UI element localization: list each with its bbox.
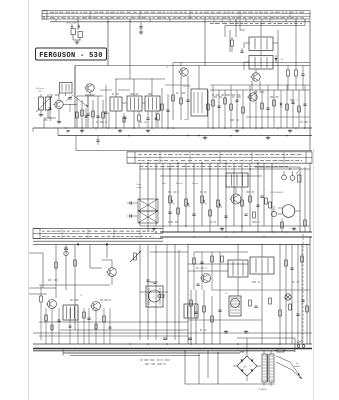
capacitor C8 <box>104 112 107 113</box>
node D <box>77 243 108 245</box>
capacitor C22 <box>85 116 88 117</box>
wire <box>90 267 102 269</box>
capacitor C12 <box>240 48 243 52</box>
wire <box>297 244 299 344</box>
resistor R70 <box>193 258 196 264</box>
capacitor C64 <box>146 280 149 281</box>
wire <box>267 85 269 128</box>
capacitor C59 <box>244 214 247 215</box>
wire <box>207 90 209 128</box>
capacitor C20 <box>96 136 99 146</box>
node F <box>65 127 297 136</box>
socket SK1 tape/gram <box>66 22 82 45</box>
capacitor C66 <box>163 338 167 339</box>
resistor R21 <box>207 104 210 110</box>
wire <box>33 240 163 242</box>
IF transformer L5 <box>145 96 160 111</box>
ground <box>39 113 43 117</box>
wire <box>255 69 257 73</box>
page right edge <box>313 148 315 400</box>
IF transformer L4 <box>127 96 142 111</box>
transformer T4 <box>184 304 198 318</box>
wire <box>133 79 135 96</box>
wire <box>295 20 297 66</box>
resistor R60 <box>55 262 58 268</box>
wire <box>188 243 310 245</box>
output transistor V5 <box>146 286 163 307</box>
ground <box>152 227 156 231</box>
wire <box>147 244 149 340</box>
wire <box>74 66 76 129</box>
wire <box>273 90 275 128</box>
resistor R51 <box>177 208 180 214</box>
wire <box>299 167 301 232</box>
wire <box>255 90 257 128</box>
node H <box>190 343 299 349</box>
wire <box>203 290 205 344</box>
ground <box>220 227 224 231</box>
capacitor C71 <box>254 306 257 307</box>
wire <box>273 42 278 44</box>
wire <box>33 243 310 245</box>
capacitor C61 <box>57 320 60 321</box>
resistor R54 <box>265 198 268 204</box>
fuse FS1 <box>274 349 287 352</box>
svg-text:V2: V2 <box>166 67 169 69</box>
wire <box>161 88 163 128</box>
capacitor C72 <box>301 300 304 301</box>
wire <box>260 51 262 56</box>
label <box>192 183 198 185</box>
wire <box>237 244 239 260</box>
label <box>212 94 240 96</box>
wire <box>48 113 56 118</box>
capacitor C17 <box>266 108 269 109</box>
wire <box>260 22 262 37</box>
transistor V10 <box>230 194 242 204</box>
wire <box>277 37 279 90</box>
wire <box>210 89 310 91</box>
wire <box>244 62 249 70</box>
resistor R75 <box>221 256 224 262</box>
capacitor C5 <box>48 108 51 109</box>
wire <box>188 319 262 321</box>
wire <box>76 96 78 128</box>
capacitor C68 <box>69 326 72 327</box>
wire <box>102 260 112 268</box>
loudspeaker LS1 <box>278 205 300 218</box>
dial lamp <box>285 294 291 300</box>
wire <box>198 66 200 90</box>
svg-text:V7: V7 <box>80 295 83 297</box>
wire <box>111 276 113 285</box>
wire <box>211 296 213 344</box>
transistor V1b <box>84 84 94 92</box>
transistor V9 <box>200 274 211 283</box>
ground <box>146 129 150 133</box>
wire <box>77 308 79 344</box>
wire <box>103 308 105 344</box>
wire <box>32 128 34 132</box>
wire <box>309 237 311 344</box>
wire <box>224 26 226 38</box>
label <box>210 23 302 25</box>
wire <box>129 20 131 66</box>
wire <box>39 284 110 286</box>
svg-text:MR1: MR1 <box>243 367 247 369</box>
wire <box>252 81 260 90</box>
capacitor C69 <box>109 327 112 328</box>
node G <box>147 162 291 237</box>
resistor R63 <box>45 315 48 321</box>
wire <box>211 252 213 290</box>
wire <box>233 163 235 226</box>
capacitor C15 <box>217 106 220 107</box>
capacitor C19 <box>303 104 306 105</box>
wire <box>177 163 179 232</box>
label <box>80 295 83 297</box>
wire <box>74 244 76 330</box>
wire <box>65 244 67 290</box>
svg-text:A.C.: A.C. <box>296 362 300 365</box>
wire <box>70 355 200 357</box>
resistor R72 <box>249 300 252 306</box>
svg-text:FM tuner: FM tuner <box>183 85 191 88</box>
wire <box>277 30 279 37</box>
capacitor C67 <box>188 338 192 339</box>
wire <box>280 90 282 128</box>
ground <box>57 120 61 124</box>
resistor R65 <box>103 316 106 322</box>
electrolytic C60 <box>64 248 68 256</box>
wire <box>122 102 127 104</box>
oscillator coil L2 <box>60 83 73 94</box>
ground <box>118 129 122 133</box>
wire <box>172 63 174 121</box>
wire <box>235 187 237 194</box>
resistor R77 <box>203 306 206 312</box>
capacitor C75 <box>218 310 221 311</box>
wire <box>187 244 189 344</box>
wire <box>291 244 293 344</box>
IF transformer T3 <box>63 305 78 320</box>
wire <box>29 287 56 289</box>
wire <box>174 244 176 340</box>
capacitor C9 <box>166 110 169 111</box>
tuning capacitor C1 <box>66 94 74 101</box>
wire <box>261 274 263 344</box>
resistor R16 <box>242 107 245 113</box>
potentiometer VR2 <box>130 251 141 262</box>
capacitor C54 <box>192 214 195 215</box>
tuning gang arrow <box>74 96 88 107</box>
earphone socket <box>282 171 301 182</box>
wire bus <box>160 231 312 233</box>
wire <box>167 94 169 128</box>
wire <box>286 85 288 128</box>
capacitor C3 <box>96 116 99 117</box>
resistor R69 <box>95 324 97 329</box>
label <box>243 367 247 369</box>
resistor R52 <box>209 210 212 216</box>
wire <box>74 66 76 97</box>
potentiometer <box>169 196 174 204</box>
wire bus <box>33 350 295 352</box>
wire <box>87 96 89 128</box>
svg-text:unit: unit <box>184 118 188 121</box>
wire <box>239 20 241 30</box>
transistor V3 <box>250 73 260 81</box>
mains switch S1 <box>297 341 305 348</box>
resistor R80 <box>301 256 304 262</box>
component value labels <box>44 92 311 352</box>
wire <box>49 96 51 118</box>
capacitor C70 <box>200 262 203 263</box>
capacitor C6 <box>123 117 126 118</box>
ground <box>288 129 292 133</box>
page left edge <box>28 0 30 400</box>
wire <box>83 308 85 344</box>
capacitor C73 <box>196 284 199 285</box>
svg-text:TAPE/GRAM: TAPE/GRAM <box>66 22 77 25</box>
IF transformer L7 <box>249 56 273 70</box>
capacitor C52 <box>127 214 131 217</box>
svg-text:B: B <box>43 15 45 19</box>
wire <box>162 163 164 232</box>
wire <box>85 108 87 128</box>
wire <box>193 252 195 290</box>
capacitor C21 <box>67 131 70 132</box>
svg-text:C: C <box>43 11 45 15</box>
label <box>225 293 228 295</box>
wire <box>279 244 281 344</box>
wire <box>58 93 60 100</box>
wire <box>304 167 306 232</box>
capacitor C74 <box>194 312 197 313</box>
wire <box>194 251 248 253</box>
wire <box>304 20 306 26</box>
wire <box>198 353 200 384</box>
ground <box>266 136 270 140</box>
resistor R10 <box>180 98 183 104</box>
wire bus <box>33 348 312 350</box>
transistor V2 <box>178 68 188 76</box>
diode D1 <box>275 55 278 63</box>
output transistor V6 <box>229 296 241 316</box>
wire <box>207 351 209 378</box>
wire <box>106 244 108 258</box>
wire <box>45 308 47 344</box>
mid terminal strip table <box>127 152 312 163</box>
resistor R82 <box>306 306 309 312</box>
title box FERGUSON - 530 <box>36 48 107 60</box>
resistor R74 <box>289 304 292 310</box>
resistor R14 <box>224 98 227 104</box>
label <box>258 388 267 391</box>
wire <box>97 96 99 128</box>
svg-text:control: control <box>136 186 142 189</box>
label <box>140 166 288 168</box>
resistor R22 <box>123 117 125 122</box>
aerial coil L1 <box>36 94 52 113</box>
svg-text:FERGUSON - 530: FERGUSON - 530 <box>39 52 103 60</box>
wire <box>188 263 248 265</box>
wire <box>115 79 117 97</box>
wire <box>257 163 259 232</box>
wire <box>244 43 249 48</box>
wire <box>133 111 135 128</box>
wire <box>185 383 275 385</box>
wire <box>263 163 265 226</box>
wire <box>81 100 83 128</box>
wire <box>75 65 310 67</box>
svg-text:input: input <box>38 90 43 93</box>
wire <box>193 163 195 232</box>
capacitor C65 <box>153 282 156 283</box>
wire <box>65 93 67 96</box>
wire <box>87 96 89 107</box>
capacitor C14 <box>301 66 304 91</box>
resistor R17 <box>261 103 264 109</box>
wire <box>225 25 305 27</box>
wire <box>249 85 251 128</box>
resistor R56 <box>241 200 244 206</box>
mains transformer T1 <box>262 350 274 386</box>
resistor R64 <box>83 312 86 318</box>
wire <box>173 62 310 64</box>
wire <box>50 21 310 23</box>
wire <box>58 308 60 344</box>
node C <box>162 231 275 238</box>
capacitor C53 <box>168 212 171 213</box>
wire <box>115 111 117 128</box>
wire <box>151 79 153 96</box>
wire <box>102 100 104 128</box>
wire <box>212 85 214 128</box>
svg-text:V5: V5 <box>147 283 150 285</box>
resistor R59 <box>281 218 284 232</box>
wire <box>224 90 226 128</box>
wire <box>109 308 111 344</box>
resistor R58 <box>269 202 272 208</box>
wire <box>229 30 231 52</box>
resistor R71 <box>211 256 214 262</box>
wire bus <box>160 236 312 238</box>
wire <box>139 163 141 226</box>
wire <box>89 92 91 96</box>
potentiometer <box>185 199 190 207</box>
wire <box>218 90 220 128</box>
wire <box>166 244 168 340</box>
label <box>184 118 188 121</box>
wire <box>63 104 77 106</box>
ground <box>244 330 248 334</box>
output transformer T5 <box>228 260 248 277</box>
resistor R2 <box>81 110 84 116</box>
wire <box>210 84 310 86</box>
wire <box>142 102 145 104</box>
wire bus <box>63 352 240 354</box>
resistor R9 <box>172 95 175 101</box>
resistor R3 <box>92 111 95 117</box>
wire <box>217 163 219 226</box>
diode D2 <box>280 102 283 108</box>
wire <box>140 225 310 227</box>
resistor R57 <box>253 212 256 218</box>
resistor R61 <box>74 260 77 266</box>
left terminal strip table <box>33 229 163 239</box>
transistor V11 <box>106 268 116 277</box>
wire <box>44 118 52 128</box>
wire <box>69 308 71 344</box>
wire <box>108 112 110 128</box>
wire <box>271 163 273 232</box>
wire <box>140 168 310 170</box>
wire <box>184 351 186 384</box>
transistor V8 <box>90 302 101 311</box>
wire <box>294 338 296 352</box>
wire <box>147 163 149 232</box>
wire <box>155 112 157 128</box>
wire <box>95 308 97 344</box>
wire <box>165 84 190 86</box>
wire bus <box>33 127 312 129</box>
capacitor C62b <box>260 196 263 197</box>
wire <box>212 289 310 291</box>
resistor R79 <box>285 260 288 266</box>
label <box>162 183 166 185</box>
resistor R68 <box>51 325 53 330</box>
resistor R78 <box>211 316 214 322</box>
wire <box>150 251 188 253</box>
label <box>36 87 44 93</box>
wire <box>209 163 211 232</box>
resistor R20 <box>298 106 301 112</box>
svg-text:Volume: Volume <box>192 183 198 185</box>
wire <box>306 244 308 344</box>
driver transformer T2 <box>226 173 248 187</box>
electrolytic C57 <box>271 206 276 217</box>
wire <box>217 353 219 384</box>
wire <box>292 90 294 128</box>
wire <box>140 291 168 293</box>
wire <box>237 337 295 339</box>
resistor R12 <box>295 66 298 91</box>
resistor R11 <box>287 66 290 91</box>
dashed link to volume control <box>302 234 304 343</box>
wire <box>39 321 188 323</box>
wire <box>230 85 232 128</box>
ground <box>235 129 239 133</box>
resistor R62 <box>40 285 43 340</box>
wire <box>58 109 60 120</box>
svg-text:Bass: Bass <box>162 183 166 185</box>
potentiometer <box>217 200 222 208</box>
capacitor C18 <box>291 102 294 103</box>
resistor R13 <box>212 100 215 106</box>
wire <box>115 78 165 80</box>
wire <box>285 244 287 344</box>
capacitor C4 <box>139 22 143 34</box>
wire <box>195 290 197 344</box>
ground <box>224 330 228 334</box>
capacitor C16 <box>235 100 238 101</box>
resistor R81 <box>279 310 282 316</box>
node J <box>74 343 219 354</box>
label <box>270 191 284 194</box>
capacitor C51 <box>127 201 131 204</box>
wire bus <box>33 343 312 345</box>
